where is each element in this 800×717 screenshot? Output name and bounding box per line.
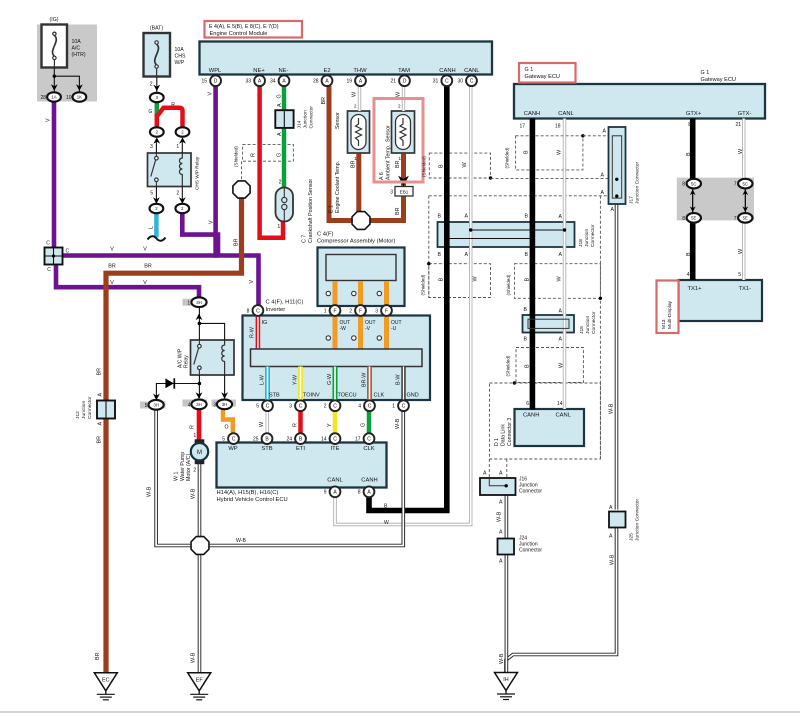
wire R inverter TOINV to HV ECU ETI — [298, 411, 303, 434]
wire V from CHS relay pin 2 joining WPL wire — [182, 213, 218, 256]
svg-text:Compressor Assembly (Motor): Compressor Assembly (Motor) — [317, 239, 395, 245]
svg-text:28: 28 — [313, 79, 319, 85]
svg-text:(Shielded): (Shielded) — [421, 156, 426, 177]
svg-text:A: A — [611, 207, 615, 213]
connector C junction box — [45, 248, 63, 265]
shield drain from NE box to splice — [241, 161, 243, 181]
connector oval CHS relay lower-left — [150, 204, 164, 213]
svg-text:Connector: Connector — [591, 311, 597, 334]
ECM pin TAM 21-D — [399, 75, 410, 86]
svg-text:BR: BR — [233, 238, 239, 246]
svg-text:34: 34 — [270, 79, 276, 85]
svg-text:J17: J17 — [629, 196, 635, 204]
svg-text:CLK: CLK — [363, 446, 374, 452]
svg-text:CANL: CANL — [327, 478, 343, 484]
hybrid vehicle control ECU box H14/H15/H16 — [217, 443, 387, 488]
terminal circles inverter — [326, 336, 330, 340]
svg-text:L-W: L-W — [259, 374, 265, 385]
svg-text:8: 8 — [247, 308, 250, 314]
svg-text:M: M — [197, 450, 202, 456]
svg-text:TOECU: TOECU — [338, 393, 357, 399]
svg-text:EF: EF — [196, 677, 204, 683]
inverter pin OUT-V 2-F — [355, 305, 366, 316]
M13 highlight label box — [657, 281, 679, 334]
svg-text:CHS: CHS — [175, 54, 186, 60]
svg-text:J18: J18 — [578, 239, 584, 247]
svg-text:24: 24 — [286, 437, 292, 443]
CHS W/P relay box — [148, 153, 192, 187]
svg-text:C 4(F), H11(C): C 4(F), H11(C) — [266, 300, 304, 306]
svg-text:3H: 3H — [196, 300, 202, 305]
connector oval 5E left — [687, 213, 701, 223]
data link connector D1 box — [515, 409, 585, 446]
Gateway ECU box G1 — [514, 84, 765, 119]
svg-text:STB: STB — [261, 446, 272, 452]
splice node W-B bus — [191, 537, 209, 555]
svg-text:W/P: W/P — [175, 60, 185, 66]
wide shield box left edge — [428, 196, 430, 298]
svg-text:CANH: CANH — [439, 68, 455, 74]
connector strip 4 (3H) — [183, 400, 208, 407]
J15 junction connector box — [523, 315, 575, 333]
svg-text:W-B: W-B — [395, 418, 401, 429]
svg-text:Water Pump: Water Pump — [180, 452, 186, 481]
svg-text:R: R — [251, 153, 257, 157]
svg-text:B: B — [438, 214, 442, 220]
svg-text:3: 3 — [375, 308, 378, 314]
svg-text:15: 15 — [202, 79, 208, 85]
svg-text:A: A — [559, 214, 563, 220]
svg-text:C 7: C 7 — [302, 235, 308, 243]
wide shield box right edge running to DLC3 — [599, 196, 601, 459]
svg-text:Engine Coolant Temp.: Engine Coolant Temp. — [335, 161, 341, 213]
wire Y inverter TOECU to HV ECU ITE — [333, 411, 338, 434]
svg-text:G: G — [277, 153, 283, 157]
shield box around NE+/NE- pair — [243, 144, 294, 161]
svg-text:W-B: W-B — [610, 554, 616, 565]
svg-text:B: B — [524, 337, 528, 343]
connector oval CHS relay upper-right — [176, 127, 190, 136]
gray panel behind fuse F5 (IG) — [37, 25, 97, 102]
svg-text:Junction: Junction — [302, 110, 308, 128]
shield drain dot at Gateway CAN box corner — [581, 134, 584, 137]
svg-text:C: C — [333, 437, 337, 443]
connector oval CHS relay upper-left — [150, 127, 164, 136]
shield drain line to J17 pin — [491, 178, 613, 180]
svg-text:1: 1 — [398, 156, 401, 161]
wire L from CHS relay — [154, 213, 159, 238]
svg-text:IH: IH — [503, 677, 508, 683]
svg-text:Junction Connector: Junction Connector — [635, 498, 641, 541]
water pump motor W1 — [195, 439, 205, 443]
svg-text:V: V — [143, 280, 147, 286]
svg-text:33: 33 — [246, 79, 252, 85]
svg-text:A: A — [559, 337, 563, 343]
svg-text:Sensor: Sensor — [335, 112, 341, 129]
svg-text:Multi-Display: Multi-Display — [667, 300, 673, 329]
svg-text:2: 2 — [398, 104, 401, 109]
svg-text:WP: WP — [228, 446, 237, 452]
svg-text:A: A — [277, 132, 283, 136]
svg-text:4: 4 — [358, 404, 361, 410]
svg-text:2: 2 — [279, 180, 282, 186]
svg-text:Crankshaft Position Sensor: Crankshaft Position Sensor — [308, 179, 314, 243]
wire V from fuse 1A to connector C — [52, 101, 57, 249]
wide shield box top edge to J17 — [429, 195, 612, 197]
svg-text:V: V — [110, 247, 114, 253]
coolant sensor thermistor element — [351, 115, 366, 150]
svg-text:Y: Y — [327, 423, 333, 427]
svg-text:CANH: CANH — [361, 478, 377, 484]
svg-text:Junction: Junction — [585, 316, 591, 334]
ambient temp sensor A6 box — [392, 111, 415, 153]
svg-text:C: C — [46, 241, 50, 247]
arrow into CHS relay lower-left connector — [153, 197, 160, 204]
inverter C4/H11 box — [243, 316, 431, 401]
svg-text:GND: GND — [407, 393, 419, 399]
svg-text:TAM: TAM — [398, 68, 410, 74]
svg-text:C: C — [470, 79, 474, 85]
svg-text:O: O — [224, 425, 228, 431]
svg-text:G 1: G 1 — [525, 67, 534, 73]
multi-display M13 box — [679, 280, 763, 321]
A/C W/P relay box — [191, 340, 235, 375]
CHS relay coil — [179, 154, 182, 187]
svg-text:A: A — [465, 252, 469, 258]
HV ECU pin CANH 8-A — [364, 486, 375, 497]
svg-text:1: 1 — [187, 300, 190, 306]
ECM pin E2 28-A — [322, 75, 333, 86]
fuse element 10A A/C HTR — [53, 32, 56, 35]
svg-text:W 1: W 1 — [174, 472, 180, 481]
wire AC relay coil to connector 3-3H — [224, 375, 226, 398]
svg-text:5: 5 — [738, 272, 741, 278]
svg-text:5: 5 — [222, 437, 225, 443]
link between connectors 5C and 5E left — [692, 188, 694, 213]
svg-text:CANL: CANL — [556, 413, 572, 419]
wire O from connector 3-3H to HV ECU WP — [223, 410, 233, 434]
svg-text:9: 9 — [324, 490, 327, 496]
svg-text:3: 3 — [289, 404, 292, 410]
svg-text:1: 1 — [193, 433, 196, 439]
svg-text:CHS W/P Relay: CHS W/P Relay — [194, 156, 199, 190]
svg-text:(Shielded): (Shielded) — [506, 355, 511, 376]
wire B CANH from ECM pin31 to HV ECU CANH — [369, 86, 447, 511]
DLC3 shield drain to J16 left pin — [488, 459, 490, 478]
svg-text:IG: IG — [262, 320, 268, 326]
svg-text:D 1: D 1 — [494, 438, 500, 446]
ground EC — [94, 673, 117, 691]
svg-text:E2: E2 — [323, 68, 330, 74]
svg-text:21: 21 — [735, 122, 741, 128]
svg-text:-U: -U — [391, 326, 397, 332]
connector oval 1-3H — [191, 297, 206, 307]
wire G-W inverter TOECU — [333, 367, 338, 402]
wire CHS relay pin1 to connector — [181, 140, 183, 154]
svg-text:B: B — [438, 278, 444, 282]
ECM title label — [205, 21, 303, 38]
svg-text:5E: 5E — [743, 216, 748, 221]
svg-text:8: 8 — [682, 182, 685, 188]
svg-text:B: B — [524, 307, 528, 313]
svg-text:Connector: Connector — [308, 106, 314, 129]
inverter pin IG 8-C — [253, 305, 264, 316]
svg-text:1: 1 — [354, 156, 357, 161]
wire W-B from connector 5-3H to splice — [156, 410, 190, 546]
svg-text:A: A — [277, 103, 283, 107]
svg-text:10A: 10A — [175, 47, 185, 53]
svg-text:C: C — [266, 404, 270, 410]
wire W-B from splice to inverter GND — [209, 411, 403, 546]
svg-text:C: C — [402, 404, 406, 410]
svg-text:Junction: Junction — [584, 229, 590, 247]
svg-text:W: W — [384, 520, 389, 526]
connector oval 5C left — [687, 179, 701, 189]
wire W-B from splice down to ground EF — [198, 555, 202, 674]
wire G from ECM NE- to crank sensor — [282, 86, 287, 188]
wire V from ECM WPL pin — [213, 86, 218, 258]
svg-text:ITE: ITE — [330, 446, 339, 452]
svg-text:C: C — [445, 79, 449, 85]
wire W-B from J25 to ground IH — [506, 527, 617, 674]
junction dot below AC relay — [198, 382, 202, 386]
svg-text:M13: M13 — [661, 319, 667, 329]
wire R-W inside inverter from IG pin — [256, 316, 261, 350]
svg-text:B: B — [438, 252, 442, 258]
wire B-W inverter GND — [401, 367, 405, 402]
svg-text:A: A — [97, 422, 103, 426]
wire from IG fuse to connectors 1A/1K — [53, 68, 55, 92]
continuation squiggle on wire L — [148, 236, 166, 241]
svg-text:C: C — [299, 404, 303, 410]
svg-text:C: C — [256, 308, 260, 314]
svg-text:Connector: Connector — [87, 396, 93, 419]
arrow into connector 1K — [76, 84, 83, 91]
wire BR from coolant sensor to splice — [356, 154, 361, 213]
wire orange phase V compressor to inverter — [358, 281, 363, 350]
wire Y-W inverter TOINV — [298, 367, 303, 402]
splice node E2/sensors brown bus — [352, 212, 370, 230]
wire W-B from motor to splice — [198, 464, 202, 538]
wire W GTX- from 5E to M13 — [742, 223, 745, 281]
svg-text:3: 3 — [150, 144, 153, 150]
J16 junction connector box — [480, 478, 516, 495]
ECM pin CANH 31-C — [441, 75, 452, 86]
shield box around ECM CANH/CANL pair — [429, 153, 490, 178]
ambient sensor thermistor element — [396, 115, 411, 150]
svg-text:1: 1 — [176, 144, 179, 150]
inverter pin TOECU 2-C — [330, 400, 341, 411]
ECM box E4/E5/E8/E7 — [200, 42, 493, 75]
wire CHS relay pin2 to connector — [181, 187, 183, 204]
svg-text:GTX-: GTX- — [738, 111, 752, 117]
inverter pin GND 1-C — [398, 400, 409, 411]
svg-text:5: 5 — [256, 404, 259, 410]
right lower shield box corner dot — [599, 297, 602, 300]
svg-text:CANH: CANH — [523, 413, 539, 419]
ECM pin THW 19-A — [355, 75, 366, 86]
svg-text:B: B — [524, 364, 530, 368]
connector oval 5E right — [738, 213, 752, 223]
arrow into CHS relay upper-left connector — [153, 137, 160, 144]
svg-text:A: A — [601, 173, 605, 179]
svg-text:1A: 1A — [51, 95, 56, 100]
svg-text:A/C W/P: A/C W/P — [177, 348, 183, 368]
wire BR shield splice to ground bus — [106, 197, 242, 400]
arrow into connector 1-3H — [196, 314, 203, 321]
svg-text:NE-: NE- — [279, 68, 289, 74]
svg-text:(Shielded): (Shielded) — [506, 274, 511, 295]
inverter pin TOINV 3-C — [295, 400, 306, 411]
connector oval CHS relay lower-right — [175, 204, 189, 213]
svg-text:V: V — [46, 118, 52, 122]
svg-text:J14: J14 — [297, 120, 303, 128]
wire B CANH from Gateway pin17 to DLC3 CANH — [530, 119, 536, 410]
wire L-W inverter STB — [265, 367, 270, 402]
svg-text:Data Link: Data Link — [500, 424, 506, 446]
svg-text:W-B: W-B — [147, 486, 153, 497]
wire orange phase W compressor to inverter — [333, 281, 338, 350]
wire CHS relay pin3 to connector — [155, 140, 157, 154]
link between connectors 5C and 5E right — [744, 188, 746, 213]
terminal circles compressor — [326, 291, 330, 295]
svg-text:Ambient Temp.: Ambient Temp. — [386, 145, 392, 180]
arrow into CHS relay lower-right connector — [179, 197, 186, 204]
wire R from connector 4-3H to pump motor — [197, 410, 202, 441]
svg-text:D: D — [214, 79, 218, 85]
svg-text:C: C — [232, 437, 236, 443]
svg-text:V: V — [208, 92, 214, 96]
J15 inner bar — [528, 319, 569, 328]
svg-text:1: 1 — [392, 404, 395, 410]
arrow into connector 3-3H — [221, 392, 228, 399]
J12 junction connector box — [97, 401, 115, 419]
svg-text:5C: 5C — [743, 181, 749, 186]
svg-text:5: 5 — [150, 191, 153, 197]
wire W CANL from ECM pin30 to HV ECU — [335, 86, 471, 525]
DLC3 shield box — [490, 383, 601, 459]
wire W-B from J16/J24 chain to ground IH — [505, 495, 509, 674]
svg-text:L: L — [148, 226, 154, 229]
inverter pin OUT-U 3-F — [381, 305, 392, 316]
svg-text:D: D — [403, 79, 407, 85]
svg-text:1: 1 — [277, 224, 280, 230]
svg-text:BR: BR — [395, 160, 401, 168]
svg-text:(Shielded): (Shielded) — [504, 147, 509, 168]
svg-text:A/C: A/C — [72, 46, 81, 52]
CHS relay switch contact — [155, 156, 159, 160]
HV ECU pin STB 25-B — [262, 433, 273, 444]
svg-text:BR: BR — [144, 264, 152, 270]
svg-text:6: 6 — [526, 401, 529, 407]
svg-text:BR: BR — [96, 436, 102, 444]
svg-text:STB: STB — [269, 393, 280, 399]
ECM pin WPL 15-D — [210, 75, 221, 86]
wire W-B from J17 down right side — [615, 204, 619, 510]
svg-text:3H: 3H — [153, 403, 159, 408]
svg-text:B: B — [438, 164, 444, 168]
splice node on NE shield drain — [233, 181, 250, 198]
compressor assembly C4 inner box — [326, 255, 396, 281]
ground EF — [188, 673, 211, 691]
svg-text:Hybrid Vehicle Control ECU: Hybrid Vehicle Control ECU — [217, 497, 288, 503]
svg-text:3: 3 — [390, 190, 393, 196]
svg-text:7: 7 — [734, 216, 737, 222]
svg-text:Motor (A/C): Motor (A/C) — [186, 453, 192, 481]
HV ECU pin CANL 9-A — [330, 486, 341, 497]
svg-text:(IG): (IG) — [50, 17, 59, 23]
svg-text:A: A — [601, 190, 605, 196]
svg-text:B: B — [525, 214, 529, 220]
svg-text:G-W: G-W — [327, 373, 333, 385]
svg-text:14: 14 — [321, 437, 327, 443]
right lower shield box — [515, 264, 601, 299]
svg-text:-W: -W — [340, 326, 347, 332]
svg-text:W-B: W-B — [499, 653, 505, 664]
svg-text:1: 1 — [324, 308, 327, 314]
svg-text:C: C — [368, 404, 372, 410]
J17 junction connector box — [609, 127, 626, 204]
svg-text:BR: BR — [95, 652, 101, 660]
svg-text:Junction: Junction — [81, 401, 87, 419]
svg-text:C: C — [333, 404, 337, 410]
svg-text:Gateway ECU: Gateway ECU — [525, 74, 560, 80]
shield box around Gateway CANH/CANL pair — [516, 136, 583, 170]
svg-text:V: V — [143, 247, 147, 253]
connector oval 1K — [73, 92, 87, 101]
svg-text:Engine Control Module: Engine Control Module — [210, 31, 268, 37]
svg-text:Connector: Connector — [519, 548, 542, 554]
svg-text:C: C — [66, 249, 70, 255]
svg-text:Y-W: Y-W — [292, 374, 298, 385]
connector EB1 — [395, 187, 413, 197]
HV ECU pin CLK 17-C — [364, 433, 375, 444]
svg-text:Connector 3: Connector 3 — [507, 418, 513, 446]
svg-text:R: R — [292, 423, 298, 427]
svg-text:A: A — [499, 530, 503, 536]
ECM pin NE+ 33-A — [254, 75, 265, 86]
J14 junction connector box — [275, 110, 293, 128]
svg-text:4: 4 — [188, 402, 191, 408]
svg-text:(Shielded): (Shielded) — [420, 274, 425, 295]
svg-text:W-B: W-B — [190, 652, 196, 663]
svg-text:J25: J25 — [629, 533, 635, 541]
ECM pin NE- 34-A — [279, 75, 290, 86]
svg-text:2: 2 — [176, 191, 179, 197]
svg-text:BR: BR — [108, 264, 116, 270]
svg-text:7: 7 — [734, 182, 737, 188]
HV ECU pin ETI 24-B — [295, 433, 306, 444]
svg-text:5: 5 — [145, 403, 148, 409]
AC relay coil — [222, 341, 225, 375]
inverter pin OUT-W 1-F — [330, 305, 341, 316]
svg-text:C: C — [47, 267, 51, 273]
wire orange phase U compressor to inverter — [384, 281, 389, 350]
svg-text:J15: J15 — [579, 326, 585, 334]
svg-text:CANL: CANL — [464, 68, 480, 74]
svg-text:Sensor: Sensor — [386, 125, 392, 142]
wire branch to AC relay coil — [199, 323, 224, 340]
wire G from fuse connector — [155, 102, 160, 118]
wire W CANL from Gateway pin18 to DLC3 — [563, 119, 566, 410]
connector strip 5 (3H) — [140, 402, 166, 409]
svg-text:NE+: NE+ — [253, 68, 265, 74]
svg-text:B: B — [523, 150, 529, 154]
wire from BAT fuse to connector — [156, 77, 158, 92]
svg-text:2: 2 — [349, 308, 352, 314]
svg-text:B: B — [686, 252, 692, 256]
svg-text:CLK: CLK — [374, 393, 385, 399]
